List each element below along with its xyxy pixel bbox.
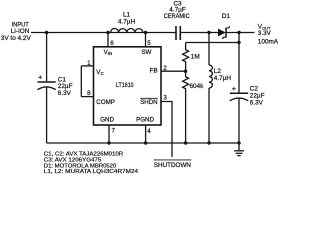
node: GND pin on ground rail (107, 141, 110, 144)
wire: pin 2 FB lead to divider (161, 70, 186, 72)
capacitor C2 bottom curved plate (230, 98, 248, 101)
svg-text:4.7µH: 4.7µH (118, 19, 136, 26)
node: VIN/L1 junction (106, 31, 109, 34)
capacitor C2 top plate (230, 92, 248, 94)
resistor R2 604k (183, 66, 189, 143)
node: SW/L1 junction (144, 31, 147, 34)
wire: pin 6 VIN lead (107, 33, 109, 47)
svg-text:COMP: COMP (96, 99, 115, 106)
capacitor C1 top plate (38, 81, 56, 83)
svg-text:C2: C2 (250, 86, 259, 93)
wire: bottom ground rail (47, 142, 239, 144)
capacitor C1 bottom curved plate (38, 87, 56, 90)
wire: input top rail from input terminal to C3 left plate (31, 32, 175, 34)
wire: top rail from C3 right plate to diode anode (181, 32, 219, 34)
wire: VOUT column down to C2 (238, 33, 240, 94)
svg-text:5: 5 (147, 40, 151, 47)
svg-text:100mA: 100mA (258, 38, 279, 45)
node: C3/D1 anode/L2 junction (207, 31, 210, 34)
shutdown label overline (154, 159, 192, 161)
svg-text:1: 1 (87, 60, 91, 67)
wire: VC-COMP connecting loop (80, 66, 82, 97)
svg-text:7: 7 (112, 128, 116, 135)
svg-text:D1: D1 (222, 13, 231, 20)
inductor L2 coil (209, 65, 212, 88)
svg-text:604k: 604k (190, 83, 205, 90)
wire: pin 1 VC lead (81, 65, 93, 67)
svg-text:SHUTDOWN: SHUTDOWN (154, 162, 192, 169)
svg-text:4: 4 (147, 128, 151, 135)
wire: pin 4 PGND lead (145, 125, 147, 143)
diode D1 schottky cathode bar (225, 28, 227, 38)
node: 604k bottom on ground rail (184, 141, 187, 144)
wire: feedback top wire from 1M to VOUT column (186, 42, 239, 44)
wire: C1 branch from input rail down to C1 (46, 33, 48, 82)
node: C2/ground symbol on ground rail (237, 141, 240, 144)
svg-text:LT1610: LT1610 (116, 82, 134, 89)
node: input/C1 junction (45, 31, 48, 34)
wire: top rail from diode cathode to VOUT terminal (226, 32, 255, 34)
wire: L2 feed from D1 anode node (208, 33, 210, 66)
IC U1 LT1610 box (94, 47, 162, 125)
capacitor C3 left plate (175, 26, 177, 40)
svg-text:6: 6 (110, 40, 114, 47)
svg-text:6.3V: 6.3V (250, 100, 264, 107)
wire: pin 8 COMP lead (81, 96, 93, 98)
svg-text:VC: VC (96, 69, 104, 76)
svg-text:4.7µH: 4.7µH (214, 75, 232, 82)
svg-text:PGND: PGND (136, 117, 154, 124)
node: L2 bottom on ground rail (207, 141, 210, 144)
svg-text:SW: SW (141, 49, 151, 56)
node: PGND pin on ground rail (144, 141, 147, 144)
svg-text:L1: L1 (123, 12, 131, 19)
wire: C2 bottom lead to ground rail (238, 99, 240, 143)
svg-text:+: + (232, 84, 236, 93)
capacitor C3 right plate (179, 26, 181, 40)
ground symbol (238, 143, 240, 151)
svg-text:SHDN: SHDN (140, 99, 157, 106)
wire: C1 bottom lead down to ground rail (46, 87, 48, 143)
svg-text:8: 8 (87, 90, 91, 97)
svg-text:3: 3 (163, 95, 167, 102)
wire: pin 3 SHDN lead going to shutdown label (161, 102, 172, 158)
wire: pin 7 GND lead (108, 125, 110, 143)
node: FB divider junction (184, 70, 187, 73)
diode D1 triangle (218, 29, 226, 37)
svg-text:2: 2 (163, 65, 167, 72)
svg-text:3.3V: 3.3V (258, 30, 272, 37)
svg-text:+: + (38, 73, 42, 82)
svg-text:L1, L2: MURATA LQH3C4R7M24: L1, L2: MURATA LQH3C4R7M24 (44, 169, 139, 175)
svg-text:FB: FB (150, 67, 158, 74)
wire: L2 bottom lead to ground rail (208, 88, 210, 143)
node: VOUT junction (237, 31, 240, 34)
node: VOUT/FB wire junction (237, 41, 240, 44)
svg-text:1M: 1M (191, 53, 200, 60)
resistor R1 1M (183, 43, 189, 67)
wire: pin 5 SW lead (145, 33, 147, 47)
svg-text:6.3V: 6.3V (58, 90, 72, 97)
inductor L1 coil (111, 29, 144, 33)
svg-text:VIN: VIN (104, 49, 113, 56)
svg-text:3V to 4.2V: 3V to 4.2V (1, 35, 32, 42)
svg-text:GND: GND (100, 117, 114, 124)
svg-text:CERAMIC: CERAMIC (164, 13, 190, 20)
